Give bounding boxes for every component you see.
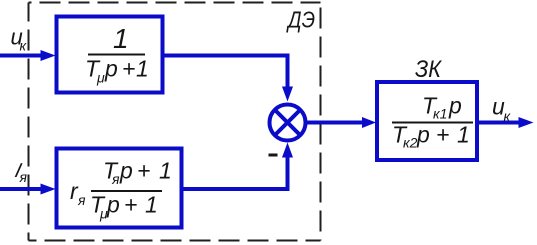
summing junction	[270, 105, 306, 141]
block W3 (Tк1p/(Tк2p+1))	[377, 82, 477, 160]
svg-text:я: я	[19, 169, 28, 185]
label ЗК	[415, 56, 443, 83]
block W3 value Tк1p/(Tк2p+1)	[392, 93, 473, 151]
svg-text:ДЭ: ДЭ	[286, 7, 316, 33]
wire input iя	[0, 184, 56, 195]
block W1 value 1/(Tμp+1)	[85, 23, 149, 86]
wire input uk	[0, 50, 56, 61]
wire summing junction to block W3	[306, 117, 376, 128]
svg-text:Tμp+1: Tμp+1	[85, 56, 149, 86]
dashed boundary box ДЭ	[29, 3, 321, 241]
block W1 (1/(Tμp+1))	[57, 17, 163, 93]
wire output uk	[477, 117, 534, 128]
block W2 value rя(Tяp+1)/(Tμp+1)	[70, 158, 172, 222]
svg-text:Tк1p: Tк1p	[422, 93, 462, 122]
svg-text:Tμp+1: Tμp+1	[90, 192, 158, 222]
minus sign at summing junction	[269, 154, 278, 157]
node label iя input	[13, 160, 28, 185]
svg-text:к: к	[20, 38, 28, 54]
wire W2 output to summing junction	[181, 143, 293, 190]
node label uk output	[492, 94, 512, 125]
node label uk input	[11, 25, 28, 54]
block W2 (rя(Tяp+1)/(Tμp+1))	[57, 149, 182, 228]
svg-text:ЗК: ЗК	[415, 56, 443, 83]
svg-text:Tяp+1: Tяp+1	[103, 158, 172, 188]
wire W1 output to summing junction	[162, 56, 293, 102]
svg-text:я: я	[77, 192, 86, 208]
svg-text:1: 1	[113, 23, 129, 54]
svg-text:Tк2p+1: Tк2p+1	[392, 122, 470, 151]
label ДЭ	[286, 7, 316, 33]
